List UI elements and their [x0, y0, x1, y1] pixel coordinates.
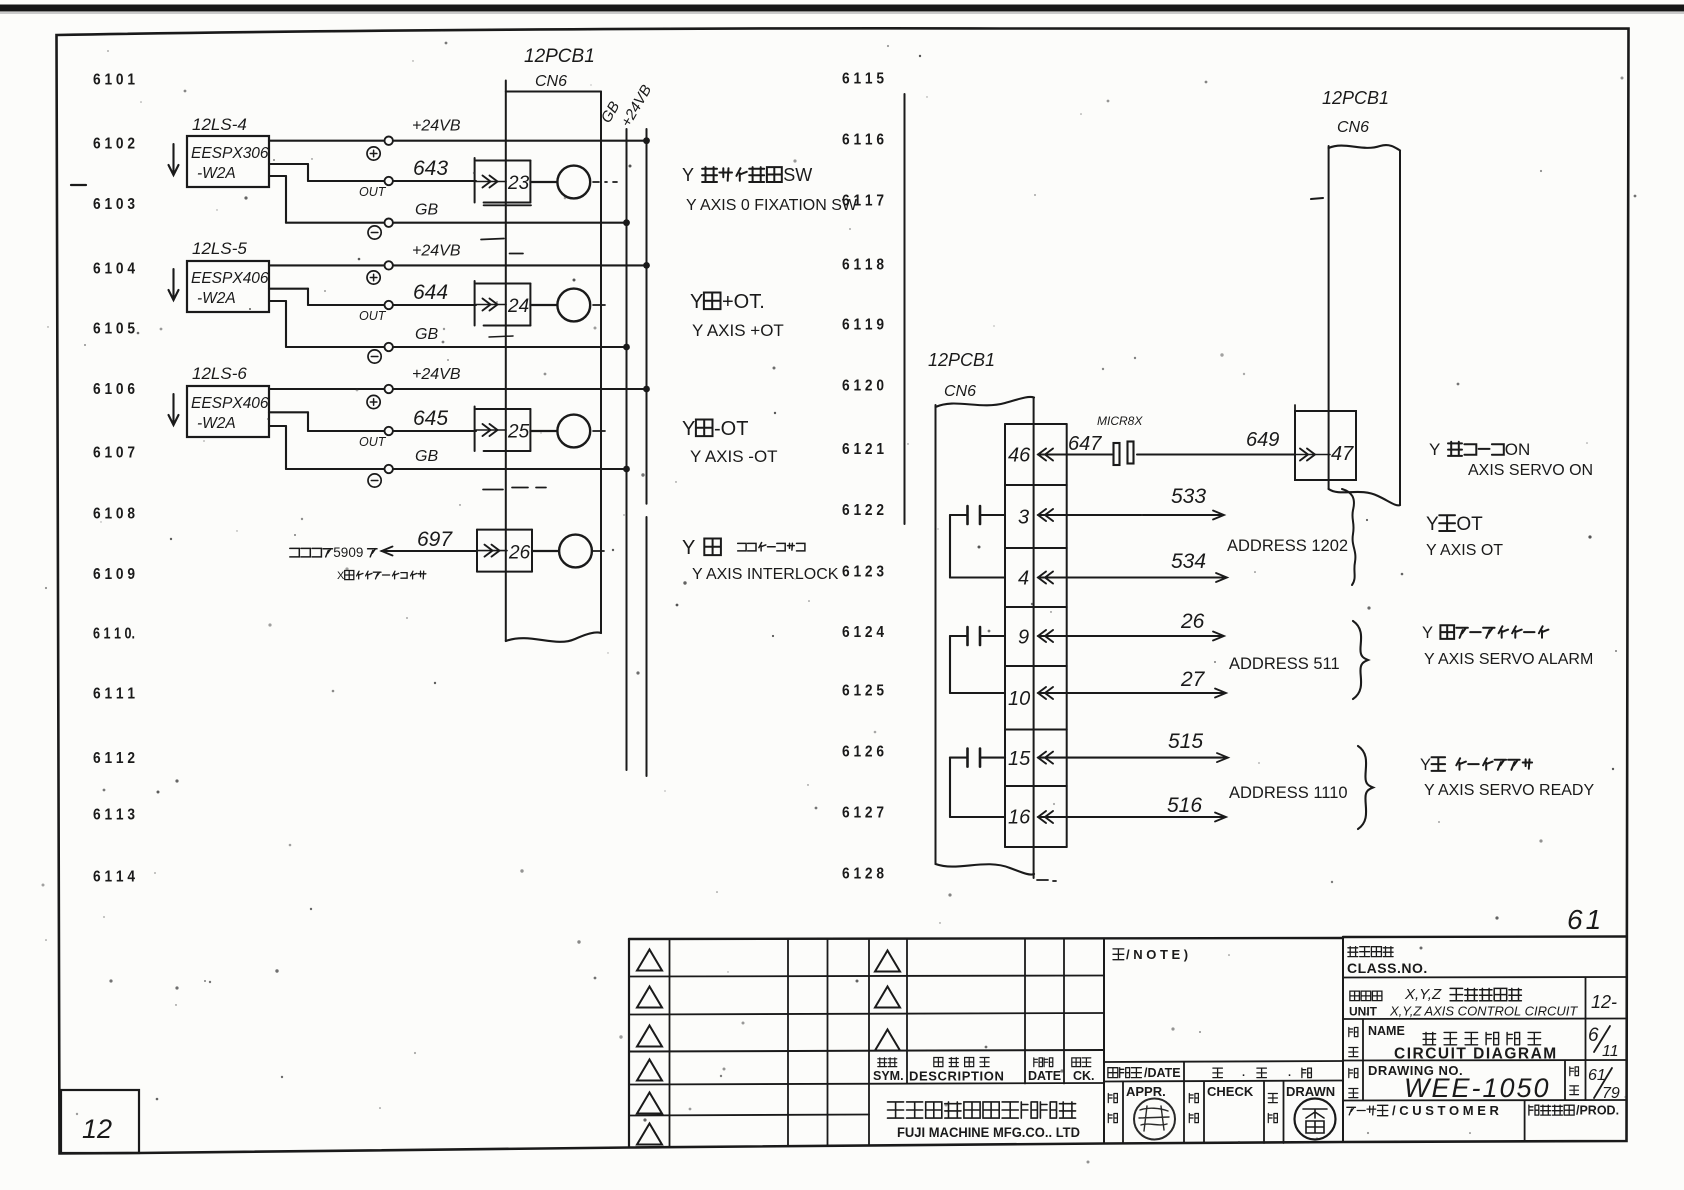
- wire +24VB from 12LS-4 to +24VB bus: [269, 118, 647, 145]
- wire 515 from pin: [1038, 730, 1228, 764]
- stray dashes near CN6 box: [483, 488, 546, 490]
- svg-text:-W2A: -W2A: [197, 415, 236, 432]
- svg-text:6 1 0 7: 6 1 0 7: [93, 445, 135, 462]
- svg-text:6 1 2 8: 6 1 2 8: [842, 866, 884, 883]
- junction GB bus: [623, 466, 630, 473]
- drawing no row: [1349, 1063, 1551, 1103]
- connector pin box 23: [475, 158, 531, 205]
- svg-text:79: 79: [1602, 1085, 1620, 1102]
- wire GB from 12LS-6 to GB bus: [269, 426, 627, 473]
- title block grid: [629, 937, 1626, 1148]
- wire GB from 12LS-4 to GB bus: [269, 176, 627, 227]
- svg-text:3: 3: [1018, 507, 1029, 529]
- svg-text:WEE-1050: WEE-1050: [1404, 1073, 1551, 1103]
- check cell (jp vertical): [1189, 1084, 1254, 1123]
- junction +24VB bus: [643, 386, 650, 393]
- svg-text:6 1 1 8: 6 1 1 8: [842, 257, 884, 274]
- svg-text:6 1 1 4: 6 1 1 4: [93, 869, 135, 886]
- junction +24VB bus: [643, 137, 650, 144]
- junction GB bus: [623, 344, 630, 351]
- svg-text:649: 649: [1246, 429, 1279, 451]
- approval cell (jp vertical): [1108, 1084, 1165, 1123]
- plus terminal symbol: [367, 271, 380, 284]
- wire 27 from pin: [1038, 668, 1226, 699]
- svg-text:12LS-6: 12LS-6: [192, 364, 247, 383]
- svg-text:12LS-5: 12LS-5: [192, 239, 247, 258]
- svg-text:AXIS SERVO ON: AXIS SERVO ON: [1468, 462, 1593, 479]
- svg-text:12-: 12-: [1591, 992, 1617, 1012]
- svg-text:Y AXIS -OT: Y AXIS -OT: [690, 447, 778, 466]
- svg-text:516: 516: [1167, 794, 1202, 817]
- svg-text:ADDRESS 511: ADDRESS 511: [1229, 655, 1340, 673]
- left line-number column 6101-6114: [93, 72, 135, 886]
- sheet number box 12: [61, 1090, 139, 1153]
- label to-address-5909: [290, 548, 300, 557]
- margin tick: [71, 184, 86, 186]
- svg-text:23: 23: [507, 173, 530, 194]
- svg-text:6 1 1 5: 6 1 1 5: [842, 70, 884, 87]
- minus terminal symbol: [368, 226, 381, 239]
- brace group servo alarm: [1353, 621, 1368, 699]
- svg-text:DATE: DATE: [1028, 1069, 1061, 1083]
- svg-text:Y AXIS OT: Y AXIS OT: [1426, 542, 1503, 559]
- connector pin box 25: [475, 407, 531, 452]
- svg-text:4: 4: [1018, 568, 1029, 590]
- left rail (right half): [904, 94, 906, 524]
- svg-text:644: 644: [413, 281, 448, 304]
- svg-text:-W2A: -W2A: [197, 290, 236, 307]
- svg-text:OT: OT: [1456, 514, 1483, 535]
- down arrow at 12LS-5: [169, 269, 179, 300]
- svg-text:534: 534: [1171, 550, 1206, 573]
- svg-text:697: 697: [417, 528, 453, 551]
- svg-text:OUT: OUT: [359, 435, 387, 449]
- svg-text:.: .: [1242, 1067, 1245, 1079]
- svg-text:Y: Y: [682, 537, 695, 559]
- small dash left of right box: [1311, 198, 1323, 199]
- revision triangle L3: [637, 1026, 662, 1047]
- page cell 頁番: [1570, 1067, 1579, 1095]
- svg-text:X,Y,Z AXIS CONTROL CIRCUIT: X,Y,Z AXIS CONTROL CIRCUIT: [1389, 1004, 1578, 1019]
- sheet 61/79: [1588, 1067, 1620, 1102]
- down arrow at 12LS-6: [169, 394, 179, 425]
- svg-text:EESPX306: EESPX306: [191, 145, 269, 162]
- svg-text:6 1 1 3: 6 1 1 3: [93, 807, 135, 824]
- header DESCRIPTION cell: [909, 1058, 1004, 1084]
- right line-number column 6115-6128: [842, 70, 884, 882]
- minus terminal symbol: [368, 474, 381, 487]
- svg-text:16: 16: [1008, 807, 1031, 829]
- svg-text:Y: Y: [1426, 514, 1439, 535]
- svg-text:9: 9: [1018, 627, 1029, 649]
- junction +24VB bus: [643, 262, 650, 269]
- svg-text:6 1 0 6: 6 1 0 6: [93, 381, 135, 398]
- svg-text:Y: Y: [1420, 756, 1431, 774]
- svg-text:26: 26: [508, 543, 531, 564]
- svg-text:6 1 2 7: 6 1 2 7: [842, 805, 884, 822]
- svg-text:Y: Y: [1422, 624, 1433, 642]
- svg-text:6 1 2 2: 6 1 2 2: [842, 502, 884, 519]
- svg-text:Y: Y: [690, 291, 703, 313]
- svg-text:CLASS.NO.: CLASS.NO.: [1347, 960, 1428, 976]
- svg-text:/ C U S T O M E R: / C U S T O M E R: [1392, 1103, 1500, 1118]
- svg-text:EESPX406: EESPX406: [191, 395, 269, 412]
- svg-text:533: 533: [1171, 485, 1206, 508]
- wire 533 from pin: [1038, 485, 1224, 521]
- svg-text:6 1 0 4: 6 1 0 4: [93, 261, 135, 278]
- drawn cell (jp vertical): [1268, 1084, 1335, 1123]
- svg-text:Y AXIS 0 FIXATION SW: Y AXIS 0 FIXATION SW: [686, 197, 858, 214]
- svg-text:.: .: [1288, 1067, 1291, 1079]
- svg-text:OUT: OUT: [359, 309, 387, 323]
- svg-text:12PCB1: 12PCB1: [1322, 88, 1389, 108]
- svg-text:6 1 2 3: 6 1 2 3: [842, 564, 884, 581]
- lamp circle for pin 24: [530, 289, 590, 322]
- svg-text:12: 12: [82, 1114, 112, 1144]
- DRAWN stamp (Ota): [1295, 1099, 1336, 1140]
- svg-text:15: 15: [1008, 748, 1031, 770]
- lamp circle for pin 26: [532, 535, 604, 568]
- revision triangle L6: [637, 1124, 662, 1145]
- dash after lamp: [593, 181, 617, 183]
- rotated label +24VB: [618, 82, 655, 130]
- svg-text:10: 10: [1008, 688, 1030, 710]
- wire loop pins 3/4: [950, 515, 1005, 578]
- svg-text:CN6: CN6: [1337, 119, 1369, 136]
- svg-text:/DATE: /DATE: [1144, 1066, 1181, 1080]
- svg-text:6 1 1 6: 6 1 1 6: [842, 132, 884, 149]
- revision triangle L5: [637, 1093, 662, 1114]
- connector pin box 26: [477, 530, 532, 572]
- wire GB from 12LS-5 to GB bus: [269, 301, 627, 351]
- customer row: [1347, 1103, 1500, 1118]
- revision triangle M3: [875, 1030, 900, 1051]
- svg-text:645: 645: [413, 407, 448, 430]
- svg-text:Y: Y: [682, 418, 695, 440]
- svg-text:6 1 2 6: 6 1 2 6: [842, 744, 884, 761]
- dash after lamp: [593, 430, 605, 432]
- svg-text:6 1 2 1: 6 1 2 1: [842, 441, 884, 458]
- wire OUT 644 from 12LS-5 to arrow box: [269, 281, 476, 323]
- svg-text:GB: GB: [415, 202, 438, 219]
- lamp circle for pin 23: [530, 166, 590, 199]
- capacitor C2: [968, 627, 981, 645]
- svg-text:Y: Y: [1429, 440, 1440, 459]
- svg-text:6 1 2 0: 6 1 2 0: [842, 378, 884, 395]
- svg-text:6 1 1 0.: 6 1 1 0.: [93, 626, 135, 643]
- svg-text:CN6: CN6: [944, 383, 976, 400]
- svg-text:6: 6: [1588, 1025, 1599, 1046]
- date row labels: [1108, 1066, 1312, 1080]
- svg-text:APPR.: APPR.: [1126, 1084, 1166, 1099]
- wire OUT 643 from 12LS-4 to arrow box: [269, 157, 476, 199]
- svg-text:X: X: [337, 570, 345, 582]
- svg-text:6 1 0 8: 6 1 0 8: [93, 506, 135, 523]
- svg-text:6 1 0 5: 6 1 0 5: [93, 321, 135, 338]
- svg-text:6 1 2 4: 6 1 2 4: [842, 624, 884, 641]
- lamp circle for pin 25: [530, 415, 590, 448]
- wire +24VB from 12LS-5 to +24VB bus: [269, 242, 647, 269]
- note cell label: [1113, 947, 1188, 962]
- limit switch 12LS-6 (EESPX406-W2A): [187, 364, 269, 437]
- svg-text:647: 647: [1068, 433, 1102, 455]
- capacitor MICR8X contacts: [1114, 442, 1134, 466]
- svg-text:26: 26: [1180, 610, 1205, 633]
- svg-text:6 1 0 1: 6 1 0 1: [93, 72, 135, 89]
- header CK cell: [1072, 1058, 1095, 1083]
- svg-text:Y: Y: [682, 165, 694, 185]
- name row: circuit diagram: [1349, 1024, 1558, 1063]
- svg-text:DRAWN: DRAWN: [1286, 1084, 1335, 1099]
- +24VB bus line: [646, 129, 648, 776]
- svg-text:5909: 5909: [333, 545, 363, 560]
- svg-text:CN6: CN6: [535, 73, 567, 90]
- svg-text:25: 25: [507, 422, 530, 443]
- down arrow at 12LS-4: [169, 144, 179, 175]
- brace group servo ready: [1358, 746, 1373, 829]
- svg-text:NAME: NAME: [1368, 1024, 1405, 1038]
- svg-text:+OT.: +OT.: [722, 291, 765, 313]
- svg-text:Y AXIS +OT: Y AXIS +OT: [692, 321, 784, 340]
- brace group Y axis OT: [1342, 489, 1355, 585]
- svg-text:6 1 0 9: 6 1 0 9: [93, 566, 135, 583]
- minus terminal symbol: [368, 350, 381, 363]
- revision triangle L1: [637, 950, 662, 971]
- svg-text:47: 47: [1331, 443, 1354, 465]
- svg-text:+24VB: +24VB: [412, 366, 461, 383]
- APPR stamp: [1134, 1099, 1175, 1140]
- wire 516 from pin: [1038, 794, 1226, 823]
- limit switch 12LS-5 (EESPX406-W2A): [187, 239, 269, 312]
- svg-text:6 1 0 3: 6 1 0 3: [93, 196, 135, 213]
- svg-text:FUJI MACHINE MFG.CO.. LTD: FUJI MACHINE MFG.CO.. LTD: [897, 1125, 1080, 1140]
- svg-text:CIRCUIT DIAGRAM: CIRCUIT DIAGRAM: [1394, 1046, 1558, 1063]
- svg-text:Y AXIS SERVO ALARM: Y AXIS SERVO ALARM: [1424, 651, 1593, 668]
- revision triangle L2: [637, 987, 662, 1008]
- connector 12PCB1 CN6 (left) tall box: [506, 81, 601, 642]
- svg-text:24: 24: [507, 296, 529, 317]
- GB bus line: [626, 129, 628, 770]
- svg-text:ON: ON: [1505, 440, 1531, 459]
- connector pin box 47: [1295, 405, 1356, 480]
- svg-text:6 1 1 1: 6 1 1 1: [93, 686, 135, 703]
- class no labels: [1347, 947, 1428, 976]
- svg-text:-W2A: -W2A: [197, 165, 236, 182]
- svg-text:Y AXIS SERVO READY: Y AXIS SERVO READY: [1424, 782, 1594, 799]
- revision triangle M2: [875, 987, 900, 1008]
- svg-text:11: 11: [1602, 1043, 1619, 1060]
- svg-text:/PROD.: /PROD.: [1576, 1104, 1619, 1118]
- svg-text:12PCB1: 12PCB1: [928, 350, 995, 370]
- wire +24VB from 12LS-6 to +24VB bus: [269, 366, 647, 393]
- plus terminal symbol: [367, 147, 380, 160]
- svg-text:+24VB: +24VB: [412, 118, 461, 135]
- svg-text:X,Y,Z: X,Y,Z: [1404, 986, 1442, 1003]
- svg-text:6 1 1 2: 6 1 1 2: [93, 750, 135, 767]
- revision triangle M1: [875, 951, 900, 972]
- svg-text:Y AXIS INTERLOCK: Y AXIS INTERLOCK: [692, 566, 839, 583]
- svg-text:CK.: CK.: [1073, 1069, 1095, 1083]
- wire loop pins 15/16: [950, 758, 1005, 817]
- plus terminal symbol: [367, 395, 380, 408]
- svg-text:6 1 2 5: 6 1 2 5: [842, 683, 884, 700]
- header SYM cell: [873, 1058, 904, 1083]
- prod row: [1529, 1104, 1619, 1118]
- wire loop pins 9/10: [950, 636, 1005, 693]
- header DATE cell: [1028, 1058, 1061, 1083]
- wire 647/649 from pin 46 to pin 47: [1038, 449, 1295, 461]
- svg-text:DESCRIPTION: DESCRIPTION: [909, 1069, 1004, 1084]
- company name Fuji Machine (jp): [888, 1102, 904, 1118]
- svg-text:46: 46: [1008, 445, 1031, 467]
- svg-text:61: 61: [1567, 904, 1604, 935]
- svg-text:-OT: -OT: [714, 418, 748, 440]
- scan edge band: [0, 5, 1684, 12]
- capacitor C1: [968, 506, 981, 524]
- svg-text:12LS-4: 12LS-4: [192, 115, 247, 134]
- svg-text:OUT: OUT: [359, 185, 387, 199]
- svg-text:ADDRESS 1202: ADDRESS 1202: [1227, 537, 1348, 555]
- svg-text:6 1 1 9: 6 1 1 9: [842, 317, 884, 334]
- wire OUT 645 from 12LS-6 to arrow box: [269, 407, 476, 449]
- svg-text:GB: GB: [415, 326, 438, 343]
- junction GB bus: [623, 219, 630, 226]
- svg-text:SW: SW: [783, 165, 812, 185]
- svg-text:+24VB: +24VB: [412, 242, 461, 259]
- svg-text:GB: GB: [415, 448, 438, 465]
- wire 697 to address 5909 (Y axis interlock): [382, 528, 478, 556]
- pin box column (pins 46,3,4,9,10,15,16): [1005, 424, 1067, 847]
- dash after lamp: [593, 304, 605, 306]
- svg-text:ADDRESS 1110: ADDRESS 1110: [1229, 784, 1348, 802]
- svg-text:515: 515: [1168, 730, 1203, 753]
- svg-text:CHECK: CHECK: [1207, 1084, 1254, 1099]
- svg-text:MICR8X: MICR8X: [1097, 414, 1143, 428]
- rotated label GB: [598, 99, 624, 126]
- svg-text:643: 643: [413, 157, 448, 180]
- wire 26 from pin: [1038, 610, 1224, 642]
- svg-text:6 1 0 2: 6 1 0 2: [93, 136, 135, 153]
- connector 12PCB1 CN6 (middle) tall box: [936, 397, 1057, 881]
- svg-text:EESPX406: EESPX406: [191, 270, 269, 287]
- limit switch 12LS-4 (EESPX306-W2A): [187, 115, 269, 187]
- svg-text:SYM.: SYM.: [873, 1069, 904, 1083]
- connector 12PCB1 CN6 (right) tall box: [1329, 145, 1400, 505]
- svg-text:UNIT: UNIT: [1349, 1005, 1378, 1019]
- svg-text:/ N O T E ): / N O T E ): [1126, 947, 1188, 962]
- unit name row: [1349, 986, 1578, 1019]
- sheet 6/11: [1588, 1025, 1619, 1060]
- capacitor C3: [968, 749, 981, 767]
- wire 534 from pin: [1038, 550, 1227, 584]
- connector pin box 24: [475, 281, 531, 326]
- revision triangle L4: [637, 1060, 662, 1081]
- svg-text:27: 27: [1180, 668, 1206, 691]
- svg-text:12PCB1: 12PCB1: [524, 46, 595, 67]
